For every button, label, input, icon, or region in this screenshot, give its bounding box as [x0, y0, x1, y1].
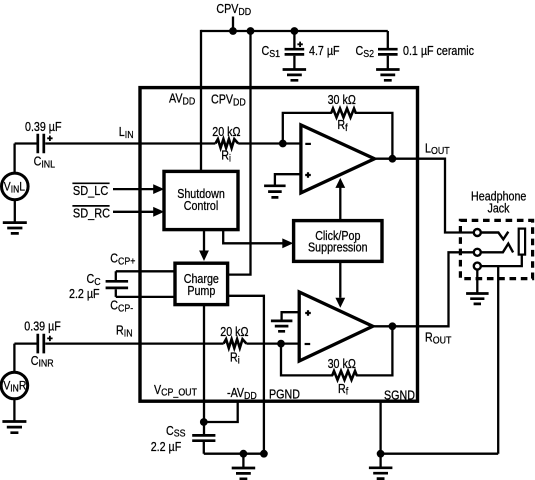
- jack terminal circle tip: [474, 229, 481, 236]
- ground bottom opamp plus input: [271, 321, 293, 331]
- svg-text:SGND: SGND: [384, 389, 415, 403]
- resistor Rf top 30k: [331, 109, 355, 118]
- wire CCP- pin: [116, 296, 177, 298]
- junction dot CSS ground: [240, 450, 248, 458]
- source VINR circle: [1, 372, 28, 399]
- block Shutdown Control: [164, 171, 238, 229]
- junction dot SGND: [377, 450, 385, 458]
- resistor Ri bottom 20k: [224, 339, 247, 348]
- arrow shutdown control to click/pop: [223, 230, 283, 244]
- wire CSS ground stem: [242, 454, 244, 468]
- ground CSS/PGND: [232, 468, 256, 479]
- wire top supply rail: [201, 30, 388, 32]
- wire CPVDD stub: [232, 17, 234, 32]
- wire jack sleeve ground stem: [476, 270, 478, 294]
- wire SGND drop and return rail: [381, 402, 499, 468]
- wire bottom opamp plus input to ground: [282, 312, 300, 321]
- block Click/Pop Suppression: [294, 221, 382, 262]
- ground top opamp plus input: [264, 186, 286, 198]
- wire LIN line: [45, 142, 302, 144]
- svg-text:20 kΩ: 20 kΩ: [220, 325, 248, 339]
- op-amp U1B (right/bottom channel): [299, 292, 373, 361]
- svg-text:2.2 µF: 2.2 µF: [69, 287, 100, 301]
- ground CS1: [283, 70, 307, 81]
- capacitor CINR 0.39uF: [38, 334, 44, 354]
- ground CS2: [376, 70, 400, 81]
- wire VINL to CINL: [15, 144, 37, 174]
- junction dot bottom output: [389, 322, 397, 330]
- wire RIN line: [45, 342, 302, 344]
- svg-text:Jack: Jack: [487, 202, 509, 216]
- arrow SD_LC into shutdown control: [113, 188, 154, 190]
- wire LOUT from top opamp to jack tip: [375, 159, 474, 233]
- wire jack sleeve line: [481, 255, 522, 267]
- svg-text:PGND: PGND: [269, 388, 300, 402]
- ground headphone jack: [466, 294, 489, 304]
- svg-text:30 kΩ: 30 kΩ: [328, 357, 356, 371]
- wire VINR ground stem: [13, 399, 15, 422]
- wire AVDD supply drop into IC: [200, 30, 202, 172]
- svg-text:VINL: VINL: [4, 181, 25, 195]
- wire VINR to CINR: [14, 344, 36, 373]
- jack terminal circle ring: [474, 249, 481, 256]
- jack plug sleeve bar: [519, 229, 525, 255]
- svg-text:SD_RC: SD_RC: [73, 206, 110, 221]
- svg-text:0.1 µF ceramic: 0.1 µF ceramic: [403, 44, 474, 58]
- capacitor CS1 4.7uF: [293, 31, 295, 48]
- arrow click/pop to bottom opamp: [339, 261, 341, 297]
- junction dot PGND return: [260, 450, 268, 458]
- svg-text:4.7 µF: 4.7 µF: [309, 44, 340, 58]
- wire VINL ground stem: [14, 200, 16, 223]
- svg-text:20 kΩ: 20 kΩ: [212, 125, 240, 139]
- jack tip contact switch: [481, 232, 509, 240]
- wire bottom feedback loop: [281, 326, 392, 375]
- junction dot top output: [389, 155, 397, 163]
- svg-text:30 kΩ: 30 kΩ: [328, 93, 356, 107]
- wire CCP+ pin: [116, 270, 177, 272]
- jack ring contact switch: [481, 244, 513, 253]
- junction dot VCP_OUT/-AVDD: [200, 418, 208, 426]
- ground VINR: [2, 422, 26, 433]
- wire VCP_OUT drop: [203, 305, 205, 435]
- capacitor CSS 2.2uF: [192, 435, 215, 440]
- junction dot CPVDD drop: [247, 27, 255, 35]
- jack terminal circle sleeve: [474, 263, 481, 270]
- block Charge Pump: [175, 263, 228, 304]
- arrow shutdown control to charge pump: [203, 230, 205, 251]
- wire CPVDD supply drop to charge pump: [228, 31, 251, 275]
- wire ROUT from bottom opamp to jack ring: [373, 252, 474, 326]
- wire top opamp plus input to ground: [275, 174, 301, 186]
- headphone jack dashed enclosure: [460, 220, 532, 278]
- resistor Ri top 20k: [215, 139, 238, 148]
- wire jack sleeve to SGND return: [497, 266, 499, 454]
- svg-text:Control: Control: [184, 199, 219, 213]
- capacitor CS2 0.1uF ceramic: [387, 31, 389, 48]
- svg-text:2.2 µF: 2.2 µF: [151, 440, 182, 454]
- svg-text:0.39 µF: 0.39 µF: [24, 320, 61, 334]
- op-amp U1A (left/top channel): [301, 125, 375, 193]
- svg-text:SD_LC: SD_LC: [73, 183, 109, 198]
- svg-text:Suppression: Suppression: [308, 241, 368, 255]
- wire -AVDD branch: [204, 402, 238, 422]
- junction dot CPVDD stub: [229, 27, 237, 35]
- ground VINL: [3, 223, 27, 234]
- svg-text:0.39 µF: 0.39 µF: [25, 120, 62, 134]
- resistor Rf bottom 30k: [332, 371, 356, 380]
- junction dot top inverting input: [279, 140, 287, 148]
- arrow SD_RC into shutdown control: [113, 211, 154, 213]
- capacitor CINL 0.39uF: [38, 134, 44, 154]
- wire top feedback loop: [283, 113, 393, 159]
- junction dot CS1 tap: [291, 27, 299, 35]
- junction dot bottom inverting input: [277, 340, 285, 348]
- svg-text:Pump: Pump: [187, 284, 215, 298]
- arrow click/pop to top opamp: [339, 187, 341, 221]
- wire charge pump to PGND: [228, 296, 264, 454]
- ground SGND: [369, 468, 393, 479]
- source VINL circle: [2, 173, 29, 200]
- capacitor CC 2.2uF flying cap: [115, 271, 117, 297]
- svg-text:VINR: VINR: [3, 380, 26, 394]
- IC outline box: [140, 88, 418, 402]
